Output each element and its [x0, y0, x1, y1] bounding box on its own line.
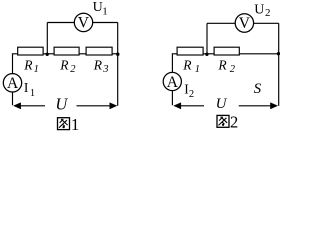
svg-text:S: S	[254, 81, 262, 97]
caption figure2: character tu (picture)	[217, 115, 229, 127]
wire: figure1 left terminal corner to R1	[13, 54, 18, 105]
svg-text:2: 2	[265, 7, 271, 19]
wire: figure2 top wire right segment	[254, 22, 279, 24]
arrowhead right of U arrow (figure2)	[270, 102, 278, 109]
node junction right of R3 (figure1)	[116, 53, 119, 56]
svg-text:2: 2	[230, 64, 236, 75]
wire: figure2 right vertical wire	[278, 23, 280, 106]
svg-text:V: V	[239, 15, 251, 32]
wire: figure1 U arrow line left part	[20, 105, 46, 107]
svg-text:A: A	[167, 74, 179, 91]
caption figure1: character tu (picture)	[58, 118, 70, 130]
node junction between R1 and R2 (figure2)	[205, 53, 208, 56]
resistor R1 (figure1)	[18, 47, 43, 55]
wire: figure1 U arrow line right part	[77, 105, 111, 107]
svg-text:R: R	[217, 57, 227, 72]
arrowhead left of U arrow (figure2)	[173, 102, 181, 109]
wire: figure1 right vertical wire	[117, 23, 119, 106]
wire: figure1 top wire right segment	[93, 22, 118, 24]
wire: figure2 voltmeter drop to node between R1 and R2	[206, 23, 208, 54]
wire: figure1 voltmeter drop to node between R1 and R2	[46, 23, 48, 55]
node junction between R1 and R2 (figure1)	[46, 53, 49, 56]
svg-text:V: V	[78, 14, 90, 31]
ammeter A circle (figure2)	[163, 72, 181, 90]
svg-text:1: 1	[71, 115, 80, 134]
svg-text:R: R	[93, 57, 103, 72]
arrowhead right of U arrow (figure1)	[110, 102, 118, 109]
svg-text:U: U	[254, 2, 264, 17]
wire: figure2 left terminal corner to R1	[172, 54, 177, 105]
svg-text:3: 3	[102, 64, 108, 75]
resistor R3 (figure1)	[86, 47, 112, 55]
svg-text:R: R	[23, 57, 33, 72]
svg-text:2: 2	[70, 64, 76, 75]
svg-text:U: U	[93, 0, 103, 15]
svg-text:1: 1	[30, 88, 35, 99]
voltmeter U1 circle (figure1)	[74, 13, 92, 31]
wire: figure1 R3 to right wire	[112, 53, 118, 55]
svg-text:U: U	[216, 96, 228, 112]
wire: figure2 top wire left segment	[207, 22, 235, 24]
arrowhead left of U arrow (figure1)	[13, 102, 21, 109]
svg-text:1: 1	[34, 64, 39, 75]
svg-text:U: U	[55, 95, 68, 114]
svg-text:A: A	[7, 75, 19, 92]
svg-text:1: 1	[102, 5, 108, 17]
resistor R2 (figure2)	[214, 47, 239, 55]
wire: figure1 R1 to R2	[43, 53, 54, 55]
wire: figure2 U arrow line left part	[180, 105, 204, 107]
svg-text:I: I	[24, 80, 29, 95]
svg-text:2: 2	[189, 89, 194, 100]
svg-text:2: 2	[230, 112, 238, 131]
voltmeter U2 circle (figure2)	[235, 14, 253, 32]
ammeter A circle (figure1)	[3, 74, 21, 92]
wire: figure2 U arrow line right part	[239, 105, 273, 107]
node junction right of R2 (figure2)	[277, 52, 280, 55]
resistor R1 (figure2)	[177, 47, 203, 55]
wire: figure1 top wire left segment	[47, 22, 74, 24]
wire: figure2 R2 to right wire	[239, 53, 278, 55]
wire: figure2 R1 to R2	[203, 53, 214, 55]
svg-text:1: 1	[195, 64, 200, 75]
resistor R2 (figure1)	[54, 47, 79, 55]
wire: figure1 R2 to R3	[79, 53, 86, 55]
svg-text:R: R	[59, 57, 69, 72]
svg-text:R: R	[182, 57, 192, 72]
